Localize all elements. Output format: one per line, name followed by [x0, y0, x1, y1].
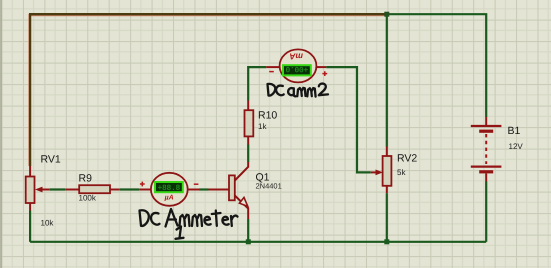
wire: red fringe under hand-traced top wire [29, 14, 387, 166]
transistor Q1 [209, 162, 282, 219]
svg-text:R9: R9 [79, 173, 93, 185]
svg-text:+00.0: +00.0 [285, 64, 308, 73]
potentiometer RV1 [26, 154, 61, 228]
wire: R9 to ammeter 1 green [120, 188, 139, 190]
svg-text:2N4401: 2N4401 [256, 182, 282, 191]
left screen edge line [0, 0, 2, 268]
node: junction dot bottom emitter [246, 239, 251, 244]
potentiometer RV2 [371, 147, 418, 194]
wire: wiper to R9 green [49, 188, 65, 190]
wire: junction down to RV2 top [386, 14, 388, 146]
resistor R10 [245, 101, 278, 145]
wire: green top right from junction to battery drop [387, 14, 486, 117]
svg-text:5k: 5k [397, 168, 406, 177]
svg-text:10k: 10k [41, 219, 55, 228]
resistor R9 [65, 173, 120, 203]
wire: RV1 bottom green to rail [29, 211, 31, 242]
svg-text:RV1: RV1 [41, 154, 61, 166]
label DC amm 2 (handwritten) [268, 84, 329, 97]
battery B1 [471, 117, 524, 182]
svg-text:mA: mA [289, 52, 303, 62]
wire: RV2 bottom to rail [386, 193, 388, 242]
wire: top horizontal brown (hand traced) from top-left corner to junction [30, 14, 387, 166]
wire: collector green [247, 145, 249, 163]
svg-text:RV2: RV2 [397, 153, 417, 165]
svg-text:+88.8: +88.8 [158, 184, 181, 193]
svg-text:100k: 100k [79, 194, 97, 203]
svg-text:µA: µA [164, 195, 174, 202]
wire: bottom rail [30, 241, 486, 243]
wire: battery bottom down to bottom rail [485, 182, 487, 242]
svg-text:1k: 1k [258, 122, 267, 131]
meter DC Ammeter 1 [139, 173, 199, 206]
meter DC amm 2 (rotated 180) [266, 49, 327, 82]
node: junction dot top [384, 12, 389, 17]
svg-text:R10: R10 [258, 110, 277, 122]
node: junction dot bottom RV2 [384, 239, 389, 244]
label DC Ammeter 1 (handwritten) [140, 209, 238, 239]
wire: emitter green to rail [247, 219, 249, 242]
svg-text:B1: B1 [508, 125, 521, 137]
svg-text:12V: 12V [509, 142, 524, 151]
wire: R10 top up and right to ammeter 2 [248, 67, 266, 100]
wire: ammeter1 to base green [199, 188, 209, 190]
wire: ammeter 2 right down to RV2 wiper [326, 67, 371, 172]
